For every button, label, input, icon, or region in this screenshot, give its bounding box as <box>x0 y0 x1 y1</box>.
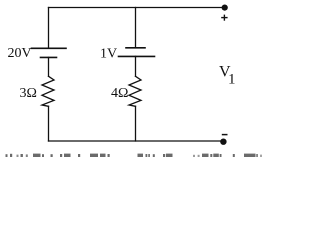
svg-text:1V: 1V <box>100 46 117 61</box>
resistor 4ohm zigzag <box>129 76 141 106</box>
node: positive output terminal (dot) <box>222 5 228 11</box>
value label 3 ohm <box>20 86 37 101</box>
resistor 3ohm zigzag <box>42 76 54 106</box>
plus sign label at positive terminal <box>221 15 227 21</box>
wire: between 1V battery and resistor 4ohm <box>135 56 137 76</box>
wire: resistor 4ohm to bottom rail <box>135 106 137 141</box>
wire: between 20V battery and resistor 3ohm <box>48 57 50 76</box>
minus sign label at negative terminal <box>222 134 228 136</box>
wire: middle branch top (top rail down to 1V battery) <box>135 8 137 48</box>
value label 20V <box>8 46 32 61</box>
svg-text:20V: 20V <box>8 46 32 61</box>
svg-text:1: 1 <box>228 71 236 87</box>
node: negative output terminal (dot) <box>220 139 226 145</box>
battery V=1V: long positive plate (bottom) <box>119 55 155 57</box>
value label 1V <box>100 46 117 61</box>
battery V=20V: short negative plate <box>41 56 57 58</box>
svg-text:4Ω: 4Ω <box>111 86 128 101</box>
wire: resistor 3ohm to bottom rail <box>48 106 50 141</box>
wire: left branch top (node A down to 20V battery) <box>48 8 50 49</box>
output voltage label V1 <box>219 64 236 88</box>
svg-text:3Ω: 3Ω <box>20 86 37 101</box>
battery V=1V: short negative plate (top) <box>126 47 145 49</box>
wire: top rail from node A to positive terminal <box>49 7 223 9</box>
caption text row (clipped at bottom edge of figure) <box>6 154 262 157</box>
battery V=20V: long positive plate <box>32 47 67 49</box>
wire: bottom rail to negative terminal <box>49 140 222 142</box>
value label 4 ohm <box>111 86 128 101</box>
